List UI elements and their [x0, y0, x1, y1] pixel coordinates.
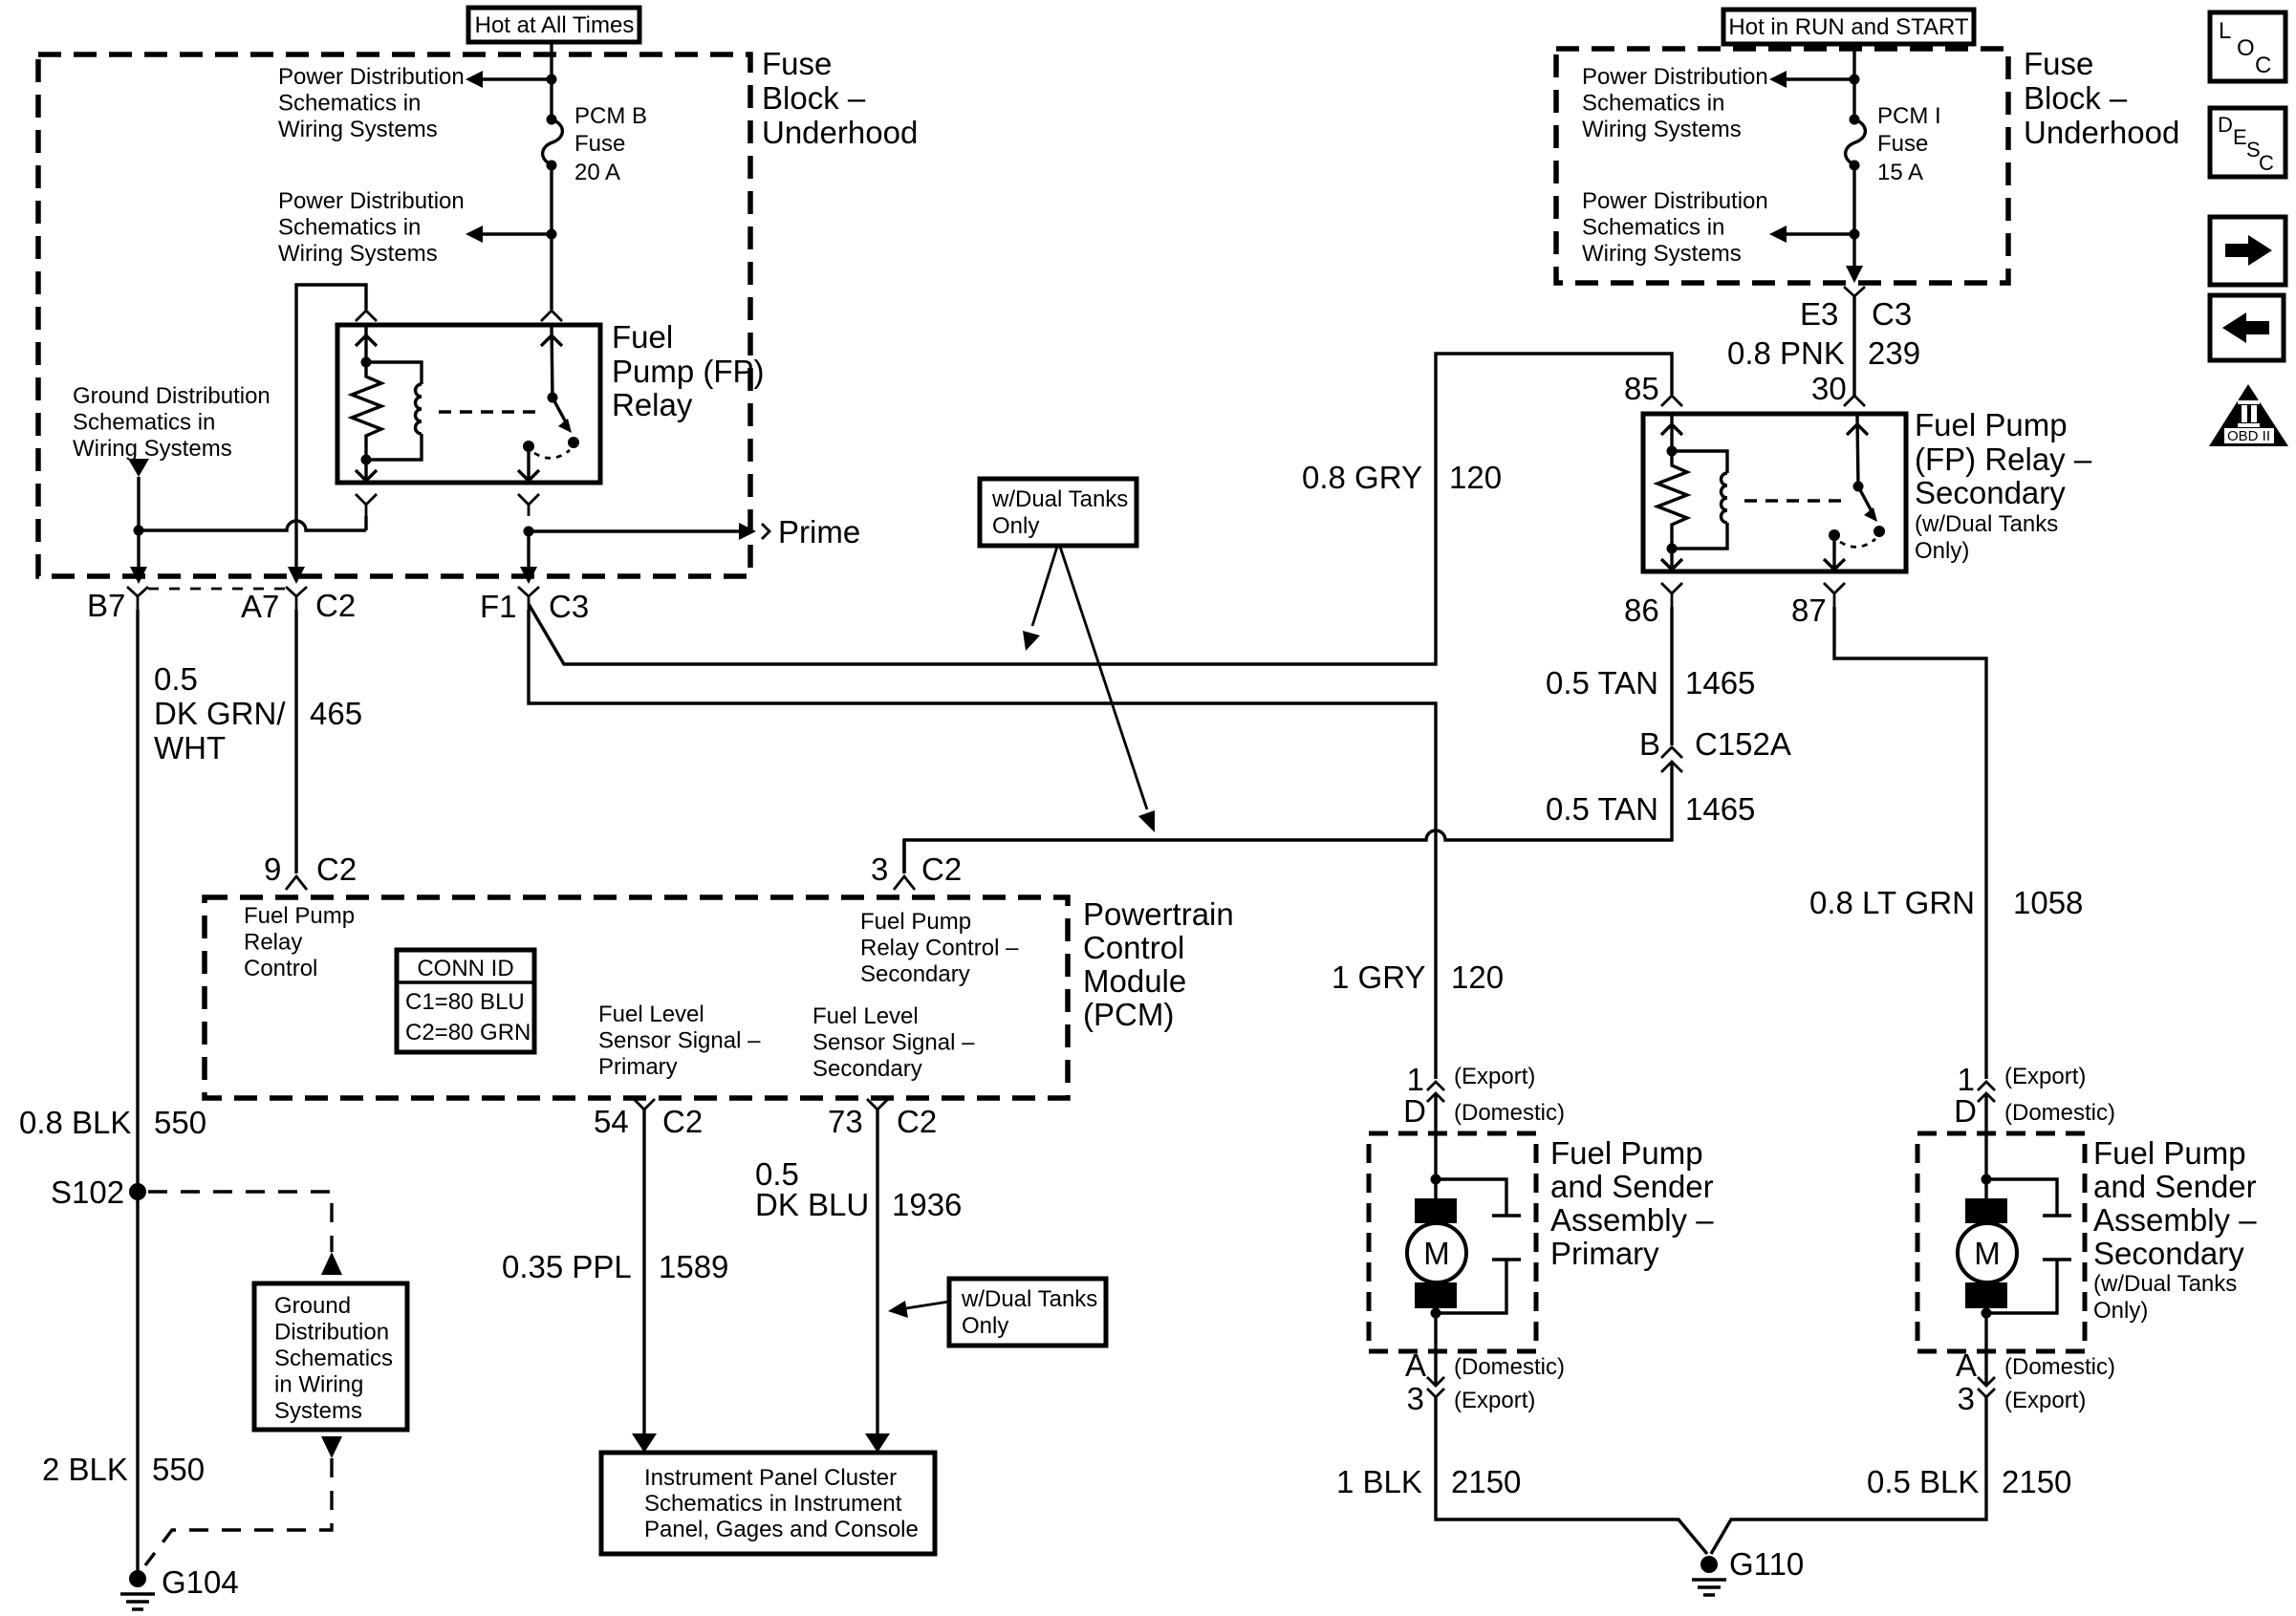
fuse block underhood (right) dashed box	[1556, 49, 2008, 283]
svg-text:Fuel Pump: Fuel Pump	[1550, 1135, 1703, 1171]
node: motor bottom junction secondary	[1982, 1308, 1992, 1319]
svg-text:C3: C3	[549, 589, 589, 624]
svg-text:Power Distribution: Power Distribution	[1582, 64, 1768, 90]
node: junction relay output / prime	[524, 527, 534, 537]
svg-text:C2: C2	[897, 1104, 937, 1139]
thin dashed connector line B7-A7	[148, 588, 288, 591]
margin icon: forward arrow box	[2210, 217, 2285, 285]
svg-text:Schematics: Schematics	[274, 1346, 393, 1371]
node: junction at power distribution tap 1 (right)	[1850, 75, 1860, 85]
label: Fuel Pump and Sender Assembly - Secondary	[2093, 1135, 2257, 1324]
label: 0.5 DK BLU	[755, 1156, 869, 1222]
ground distribution triangle	[128, 459, 149, 477]
svg-text:Fuel Pump: Fuel Pump	[1915, 407, 2068, 442]
svg-text:1589: 1589	[659, 1249, 728, 1284]
node: coil top junction	[361, 357, 372, 368]
svg-text:Block –: Block –	[762, 80, 866, 116]
svg-text:B7: B7	[87, 588, 125, 623]
svg-text:A: A	[1956, 1347, 1977, 1383]
reference box: Instrument Panel Cluster	[601, 1453, 935, 1554]
label: Fuse Block - Underhood (left)	[762, 46, 918, 150]
svg-text:Fuse: Fuse	[1877, 131, 1928, 157]
svg-text:Relay Control –: Relay Control –	[860, 936, 1019, 961]
svg-text:A7: A7	[241, 589, 279, 624]
svg-text:M: M	[1974, 1236, 2001, 1271]
dashed actuation link	[439, 410, 542, 413]
svg-text:S102: S102	[51, 1174, 124, 1210]
connector: secondary pump pin A/3	[1978, 1377, 1995, 1397]
svg-text:B: B	[1639, 726, 1660, 762]
wire: into motor primary	[1434, 1093, 1437, 1198]
svg-text:73: 73	[828, 1104, 863, 1139]
svg-text:C152A: C152A	[1695, 726, 1791, 762]
relay: Fuel Pump (FP) Relay - Secondary	[1643, 414, 1906, 571]
label: Power Distribution Schematics in Wiring Systems (upper left)	[278, 64, 465, 142]
svg-text:(Domestic): (Domestic)	[2004, 1100, 2115, 1126]
svg-text:Primary: Primary	[1550, 1236, 1659, 1271]
connector: secondary pump pin 1/D	[1978, 1082, 1995, 1102]
svg-text:Control: Control	[244, 956, 317, 981]
label: Ground Distribution Schematics in Wiring Systems	[73, 383, 271, 462]
svg-text:0.35 PPL: 0.35 PPL	[502, 1249, 632, 1284]
terminal chevron below relay coil pin	[356, 494, 377, 516]
label: 0.5 DK GRN/ WHT	[154, 661, 286, 765]
fuse PCM B 20 A	[543, 115, 563, 171]
label: 3 (Export) primary	[1407, 1381, 1536, 1416]
svg-text:2 BLK: 2 BLK	[42, 1452, 128, 1487]
dashed contact arc	[534, 450, 570, 458]
relay switch common pin arrow (up)	[541, 327, 562, 398]
sender plates primary	[1436, 1179, 1521, 1313]
fuse PCM I 15 A	[1846, 115, 1866, 171]
svg-text:Schematics in: Schematics in	[278, 215, 421, 241]
svg-text:Distribution: Distribution	[274, 1320, 389, 1346]
wire: relay output junction down to F1 with arrow	[527, 531, 530, 569]
svg-text:Relay: Relay	[612, 387, 693, 422]
svg-text:Assembly –: Assembly –	[2093, 1202, 2257, 1238]
svg-text:A: A	[1405, 1347, 1426, 1383]
svg-text:54: 54	[594, 1104, 629, 1139]
connector C152A double chevron	[1661, 747, 1682, 772]
wire: B7 ground wire down to G104	[136, 610, 139, 1572]
svg-text:w/Dual Tanks: w/Dual Tanks	[961, 1286, 1097, 1312]
wire: 0.5 DK BLU 1936 to instrument cluster	[876, 1110, 878, 1437]
svg-text:PCM B: PCM B	[574, 103, 647, 129]
label box: Hot in RUN and START	[1723, 10, 1974, 44]
pump secondary dashed box	[1917, 1133, 2085, 1351]
wire: relay coil feed loop (A7 branch)	[296, 285, 366, 576]
wire: F1 to secondary relay coil feed (0.8 GRY)	[529, 354, 1672, 664]
svg-text:Wiring Systems: Wiring Systems	[278, 241, 438, 267]
connector: primary pump pin 1/D	[1427, 1082, 1444, 1102]
relay2 switch blade	[1858, 486, 1872, 511]
svg-text:(Export): (Export)	[2004, 1064, 2086, 1089]
fuse block underhood (left) dashed box	[38, 54, 750, 576]
svg-text:Only): Only)	[1915, 538, 1969, 564]
svg-text:CONN ID: CONN ID	[417, 956, 513, 981]
terminal A7 chevron	[286, 587, 307, 610]
wire: power distribution tap 1 with arrow	[466, 71, 552, 88]
CONN ID table	[397, 950, 534, 1052]
svg-text:(PCM): (PCM)	[1083, 997, 1174, 1032]
relay output pin arrow (down to 87)	[518, 446, 539, 481]
label: Fuel Pump (FP) Relay	[612, 319, 765, 422]
svg-text:(w/Dual Tanks: (w/Dual Tanks	[1915, 511, 2058, 537]
svg-text:Systems: Systems	[274, 1398, 362, 1424]
wire: power distribution tap with arrow (right lower)	[1769, 226, 1854, 243]
svg-text:(Export): (Export)	[1454, 1064, 1535, 1089]
label: Fuel Pump (FP) Relay - Secondary	[1915, 407, 2092, 564]
svg-text:Wiring Systems: Wiring Systems	[1582, 241, 1742, 267]
svg-text:(w/Dual Tanks: (w/Dual Tanks	[2093, 1271, 2237, 1297]
motor M primary	[1407, 1198, 1466, 1308]
svg-text:Schematics in: Schematics in	[1582, 215, 1724, 241]
label box: Hot at All Times	[468, 8, 639, 42]
wire: ground distribution stub down to junction	[137, 477, 140, 530]
svg-text:Assembly –: Assembly –	[1550, 1202, 1714, 1238]
label: A (Domestic) primary	[1405, 1347, 1565, 1383]
svg-text:Wiring Systems: Wiring Systems	[1582, 117, 1742, 142]
svg-text:Module: Module	[1083, 963, 1186, 999]
svg-text:C2: C2	[316, 851, 357, 887]
relay2 switch fixed contact	[1829, 529, 1840, 541]
callout arrow to 0.8 GRY wire	[1023, 547, 1057, 651]
svg-text:(Domestic): (Domestic)	[1454, 1354, 1565, 1380]
svg-text:Hot at All Times: Hot at All Times	[475, 12, 635, 38]
label: Fuel Level Sensor Signal - Primary	[598, 1002, 761, 1080]
svg-text:Power Distribution: Power Distribution	[278, 188, 465, 214]
wire: secondary pump ground (0.5 BLK 2150)	[1711, 1397, 1986, 1554]
svg-text:1 BLK: 1 BLK	[1336, 1464, 1422, 1499]
relay switch blade	[552, 398, 566, 422]
svg-text:and Sender: and Sender	[2093, 1169, 2257, 1204]
svg-text:Secondary: Secondary	[1915, 475, 2066, 510]
label: Power Distribution Schematics in Wiring Systems (right upper)	[1582, 64, 1768, 142]
svg-text:Prime: Prime	[778, 514, 860, 549]
svg-text:0.8 BLK: 0.8 BLK	[19, 1105, 131, 1140]
triangle arrow down (from box)	[321, 1436, 342, 1458]
svg-text:Power Distribution: Power Distribution	[1582, 188, 1768, 214]
triangle arrow up (to S102 branch)	[321, 1252, 342, 1275]
label: D (Domestic) primary	[1403, 1093, 1565, 1129]
svg-text:0.8 GRY: 0.8 GRY	[1302, 460, 1422, 495]
svg-text:Powertrain: Powertrain	[1083, 896, 1234, 932]
svg-text:3: 3	[1407, 1381, 1424, 1416]
wire: F1 to primary pump feed (1 GRY)	[529, 610, 1436, 1079]
svg-text:E3: E3	[1800, 296, 1838, 332]
terminal chevron above relay2 pin 85	[1661, 396, 1682, 406]
svg-text:1: 1	[1407, 1062, 1424, 1097]
svg-text:C2=80 GRN: C2=80 GRN	[405, 1020, 531, 1045]
svg-text:30: 30	[1811, 371, 1847, 406]
terminal chevron below relay output pin	[518, 494, 539, 516]
svg-text:Underhood: Underhood	[762, 115, 918, 150]
sender plates secondary	[1986, 1179, 2071, 1313]
wire: into motor secondary	[1984, 1093, 1987, 1198]
relay coil (inductor)	[366, 362, 422, 460]
node: coil bottom junction	[361, 455, 372, 465]
svg-text:87: 87	[1791, 593, 1827, 628]
svg-text:Power Distribution: Power Distribution	[278, 64, 465, 90]
label: D (Domestic) secondary	[1954, 1093, 2115, 1129]
svg-text:D: D	[2218, 113, 2233, 137]
wire: prime feed with arrow	[529, 523, 769, 540]
dashed actuation link relay2	[1744, 499, 1848, 502]
svg-text:Ground: Ground	[274, 1293, 351, 1319]
svg-text:239: 239	[1868, 335, 1920, 371]
wire: relay coil ground side down to B7 bus	[364, 516, 367, 530]
svg-text:Primary: Primary	[598, 1054, 678, 1080]
terminal chevron PCM pin 54	[634, 1099, 655, 1121]
label: PCM B Fuse 20 A	[574, 103, 647, 185]
svg-text:85: 85	[1624, 371, 1659, 406]
svg-text:L: L	[2219, 18, 2231, 44]
callout arrow to 0.5 TAN wire	[1060, 547, 1155, 832]
pump primary dashed box	[1369, 1133, 1536, 1351]
node: junction at power distribution tap 1	[547, 75, 557, 85]
svg-text:Secondary: Secondary	[812, 1056, 922, 1082]
svg-text:F1: F1	[480, 589, 517, 624]
label box: w/Dual Tanks Only (middle)	[980, 479, 1137, 546]
svg-text:Block –: Block –	[2024, 80, 2128, 116]
svg-text:Fuse: Fuse	[2024, 46, 2093, 81]
svg-text:0.5: 0.5	[154, 661, 198, 697]
relay2 coil-side pin arrow (up)	[1661, 416, 1682, 451]
svg-text:Schematics in Instrument: Schematics in Instrument	[644, 1491, 902, 1517]
motor M secondary	[1958, 1198, 2017, 1308]
ground G104	[120, 1570, 155, 1609]
terminal F1 chevron	[518, 587, 539, 610]
svg-text:Secondary: Secondary	[860, 961, 970, 987]
wire: C152A down and across to PCM pin 3 (0.5 TAN 1465) with hop	[904, 762, 1672, 873]
label: 1 (Export) primary	[1407, 1062, 1536, 1097]
node: relay2 coil top junction	[1667, 446, 1678, 457]
svg-text:3: 3	[1958, 1381, 1975, 1416]
svg-text:D: D	[1403, 1093, 1426, 1129]
connector: primary pump pin A/3	[1427, 1377, 1444, 1397]
svg-text:Fuel Level: Fuel Level	[598, 1002, 704, 1027]
svg-text:Hot in RUN and START: Hot in RUN and START	[1728, 14, 1969, 40]
wire: motor primary to pin A/3	[1434, 1308, 1437, 1386]
wire: ignition feed down from Hot in RUN and START	[1852, 44, 1855, 119]
margin icon: back arrow box	[2210, 295, 2284, 360]
svg-text:Instrument Panel Cluster: Instrument Panel Cluster	[644, 1465, 897, 1491]
ground G110	[1692, 1556, 1726, 1595]
svg-text:0.5 TAN: 0.5 TAN	[1546, 665, 1658, 700]
wire: 87 to secondary pump feed (0.8 LT GRN)	[1834, 607, 1986, 1079]
svg-text:550: 550	[154, 1105, 206, 1140]
svg-text:C2: C2	[315, 588, 356, 623]
relay2 switch pivot	[1853, 482, 1864, 492]
svg-text:2150: 2150	[1451, 1464, 1521, 1499]
wire: motor secondary to pin A/3	[1984, 1308, 1987, 1386]
relay coil-side pin arrow (down to 86)	[356, 460, 377, 481]
terminal chevron PCM pin 3	[894, 876, 915, 890]
wire: 0.35 PPL 1589 to instrument cluster	[642, 1110, 645, 1437]
node: motor top junction secondary	[1982, 1174, 1992, 1185]
relay2 switch common pin arrow (up from 30)	[1847, 416, 1868, 486]
svg-text:0.8 LT GRN: 0.8 LT GRN	[1809, 885, 1975, 920]
svg-text:Fuel Pump: Fuel Pump	[2093, 1135, 2246, 1171]
svg-text:C3: C3	[1872, 296, 1912, 332]
svg-text:WHT: WHT	[154, 730, 226, 765]
reference box: Ground Distribution Schematics in Wiring Systems	[254, 1283, 407, 1430]
svg-text:Wiring Systems: Wiring Systems	[73, 436, 232, 462]
label: Fuse Block - Underhood (right)	[2024, 46, 2179, 150]
svg-text:1465: 1465	[1685, 665, 1755, 700]
label: Fuel Pump Relay Control	[244, 903, 355, 981]
svg-text:Only): Only)	[2093, 1298, 2148, 1324]
svg-text:G104: G104	[162, 1564, 239, 1600]
node: relay2 coil bottom junction	[1667, 544, 1678, 554]
svg-text:(Export): (Export)	[1454, 1388, 1535, 1413]
margin icon: OBD II triangle	[2209, 384, 2288, 446]
relay switch fixed contact	[523, 441, 534, 452]
svg-text:and Sender: and Sender	[1550, 1169, 1714, 1204]
svg-text:Fuse: Fuse	[762, 46, 832, 81]
svg-text:OBD II: OBD II	[2227, 428, 2270, 444]
svg-text:Schematics in: Schematics in	[1582, 91, 1724, 117]
svg-text:1465: 1465	[1685, 791, 1755, 827]
svg-text:1 GRY: 1 GRY	[1332, 959, 1425, 995]
relay2 output pin arrow (down to 87)	[1824, 535, 1845, 570]
label: Powertrain Control Module (PCM)	[1083, 896, 1234, 1032]
wire: B7 drop with arrow into fuse block edge	[137, 530, 140, 569]
svg-text:Control: Control	[1083, 930, 1184, 965]
relay switch moving contact	[568, 437, 579, 448]
svg-text:0.5 TAN: 0.5 TAN	[1546, 791, 1658, 827]
terminal chevron PCM pin 9	[286, 876, 307, 890]
PCM dashed box	[205, 897, 1068, 1098]
svg-text:15 A: 15 A	[1877, 160, 1923, 185]
node: motor bottom junction primary	[1431, 1308, 1441, 1319]
margin icon: LOC box	[2210, 12, 2285, 81]
dashed ground distribution branch (lower)	[145, 1458, 332, 1565]
svg-text:C1=80 BLU: C1=80 BLU	[405, 989, 525, 1015]
resistor inside relay	[352, 362, 381, 460]
svg-text:C2: C2	[662, 1104, 703, 1139]
label: 3 (Export) secondary	[1958, 1381, 2087, 1416]
svg-text:M: M	[1423, 1236, 1450, 1271]
node: junction at power distribution tap 2	[547, 229, 557, 240]
svg-text:G110: G110	[1729, 1546, 1804, 1582]
relay2 coil-side pin arrow (down to 86)	[1661, 549, 1682, 570]
wire: 86 down to C152A (0.5 TAN 1465)	[1670, 607, 1673, 745]
svg-text:in Wiring: in Wiring	[274, 1372, 363, 1398]
svg-text:DK GRN/: DK GRN/	[154, 696, 286, 731]
svg-text:Pump (FP): Pump (FP)	[612, 354, 765, 389]
svg-text:120: 120	[1449, 460, 1502, 495]
wire: fuse output down with arrow to fuse block edge	[1852, 165, 1855, 268]
relay2 coil (inductor)	[1672, 451, 1727, 549]
wire: PCM pin 3 stub up	[902, 840, 905, 873]
terminal chevron below relay2 pin 87	[1824, 583, 1845, 607]
svg-text:1: 1	[1958, 1062, 1975, 1097]
relay: Fuel Pump (FP) Relay	[337, 325, 600, 483]
svg-text:0.5 BLK: 0.5 BLK	[1867, 1464, 1979, 1499]
label box: w/Dual Tanks Only (lower)	[949, 1279, 1106, 1346]
svg-text:Fuel Pump: Fuel Pump	[244, 903, 355, 929]
wire: A7 drop arrow into fuse block edge	[288, 567, 305, 584]
label: Power Distribution Schematics in Wiring Systems (lower left)	[278, 188, 465, 267]
svg-text:1936: 1936	[892, 1187, 962, 1222]
wire: 0.8 PNK 239 down to relay pin 30	[1852, 296, 1855, 396]
wire: primary pump ground (1 BLK 2150)	[1436, 1397, 1707, 1554]
svg-text:86: 86	[1624, 593, 1659, 628]
svg-text:Fuel Level: Fuel Level	[812, 1003, 919, 1029]
svg-text:(Domestic): (Domestic)	[2004, 1354, 2115, 1380]
svg-text:D: D	[1954, 1093, 1977, 1129]
svg-text:(Domestic): (Domestic)	[1454, 1100, 1565, 1126]
svg-text:C: C	[2259, 151, 2274, 175]
svg-text:Secondary: Secondary	[2093, 1236, 2244, 1271]
svg-text:Fuse: Fuse	[574, 131, 625, 157]
svg-text:Underhood: Underhood	[2024, 115, 2179, 150]
svg-text:3: 3	[871, 851, 888, 887]
terminal chevron above relay2 pin 30	[1844, 396, 1865, 406]
svg-text:C: C	[2255, 53, 2271, 78]
svg-text:0.8 PNK: 0.8 PNK	[1727, 335, 1845, 371]
label: 1 (Export) secondary	[1958, 1062, 2087, 1097]
terminal chevron above relay pin 85 (left)	[356, 311, 377, 321]
svg-text:DK BLU: DK BLU	[755, 1187, 869, 1222]
node: splice S102	[129, 1183, 146, 1200]
svg-text:120: 120	[1451, 959, 1504, 995]
svg-text:9: 9	[264, 851, 281, 887]
svg-text:(FP) Relay –: (FP) Relay –	[1915, 442, 2092, 477]
label: Fuel Pump Relay Control - Secondary	[860, 909, 1019, 987]
terminal E3/C3 chevron	[1844, 287, 1865, 310]
svg-text:w/Dual Tanks: w/Dual Tanks	[991, 486, 1128, 512]
relay switch pivot	[548, 393, 558, 403]
relay2 switch moving contact	[1874, 526, 1885, 537]
label: A (Domestic) secondary	[1956, 1347, 2115, 1383]
svg-text:Fuel Pump: Fuel Pump	[860, 909, 971, 935]
svg-text:Panel, Gages and Console: Panel, Gages and Console	[644, 1517, 919, 1542]
svg-text:PCM I: PCM I	[1877, 103, 1941, 129]
svg-text:Schematics in: Schematics in	[278, 91, 421, 117]
terminal chevron PCM pin 73	[867, 1099, 888, 1121]
svg-text:C2: C2	[921, 851, 962, 887]
svg-text:465: 465	[310, 696, 362, 731]
svg-text:Sensor Signal –: Sensor Signal –	[598, 1028, 761, 1054]
wire: hot feed down from Hot at All Times	[550, 42, 552, 119]
relay coil-side pin arrow (up)	[356, 327, 377, 362]
label: PCM I Fuse 15 A	[1877, 103, 1941, 185]
node: junction at power distribution tap 2 (right)	[1850, 229, 1860, 240]
terminal B7 chevron	[127, 587, 148, 610]
svg-text:Only: Only	[992, 513, 1039, 539]
svg-text:Fuel: Fuel	[612, 319, 673, 355]
svg-text:E: E	[2233, 125, 2247, 149]
svg-text:20 A: 20 A	[574, 160, 620, 185]
dashed contact arc relay2	[1840, 539, 1875, 547]
svg-text:Relay: Relay	[244, 930, 302, 956]
svg-text:Wiring Systems: Wiring Systems	[278, 117, 438, 142]
terminal chevron above relay pin 30 (right)	[541, 311, 562, 321]
wire: fuse output down to relay pin 30	[550, 165, 552, 310]
svg-text:1058: 1058	[2013, 885, 2083, 920]
resistor inside relay2	[1657, 451, 1687, 549]
svg-text:(Export): (Export)	[2004, 1388, 2086, 1413]
wire: ground bus to B7 with hop over A7 wire	[137, 521, 366, 530]
label: Fuel Level Sensor Signal - Secondary	[812, 1003, 975, 1082]
callout arrow to 0.5 DK BLU wire	[888, 1301, 949, 1318]
wire: power distribution tap 2 with arrow	[466, 226, 552, 243]
svg-text:Only: Only	[962, 1313, 1008, 1339]
svg-text:Ground Distribution: Ground Distribution	[73, 383, 271, 409]
svg-text:Sensor Signal –: Sensor Signal –	[812, 1030, 975, 1056]
